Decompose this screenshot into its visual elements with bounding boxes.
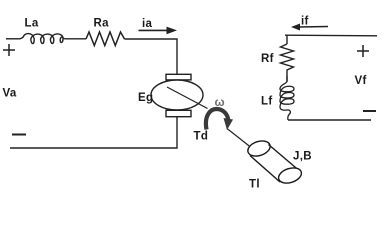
wire: Ra to corner and down to machine: [125, 39, 178, 75]
svg-text:Rf: Rf: [261, 53, 274, 65]
dc machine Eg: bottom brush: [166, 110, 191, 116]
resistor Ra: [86, 32, 125, 46]
current arrow if: [298, 26, 328, 29]
svg-text:Va: Va: [3, 88, 17, 100]
svg-text:Lf: Lf: [261, 96, 272, 108]
minus terminal Vf: [363, 110, 376, 112]
svg-text:Vf: Vf: [355, 75, 367, 87]
wire: between La and Ra: [65, 38, 87, 40]
load cylinder J,B: top end face: [246, 138, 272, 158]
svg-text:Ra: Ra: [94, 18, 110, 30]
svg-text:Eg: Eg: [138, 92, 153, 104]
torque arrow Td (rotation arc): [206, 109, 228, 130]
plus terminal Va: [3, 44, 15, 56]
wire: armature bottom: [10, 117, 177, 149]
svg-text:Tl: Tl: [249, 179, 260, 191]
field circuit bottom wire: [288, 119, 371, 121]
svg-text:ω: ω: [215, 95, 225, 109]
svg-text:Td: Td: [194, 131, 209, 143]
current arrow ia: [139, 29, 170, 31]
inductor Lf: [280, 76, 294, 120]
wire: armature top-left lead: [6, 38, 20, 40]
shaft to load: [227, 129, 251, 148]
plus terminal Vf: [357, 45, 369, 57]
stub between Rf and Lf: [286, 74, 288, 82]
load cylinder J,B: bottom end face: [277, 165, 304, 186]
svg-text:if: if: [301, 16, 309, 28]
resistor Rf: [281, 44, 294, 74]
inductor La: [20, 34, 65, 44]
dc machine Eg: armature circle: [151, 80, 203, 110]
svg-text:ia: ia: [142, 18, 152, 30]
svg-text:La: La: [25, 18, 39, 30]
field circuit top wire: [285, 34, 377, 37]
shaft slash through machine: [167, 87, 208, 109]
field left branch stub: [286, 35, 288, 44]
minus terminal Va: [12, 134, 26, 136]
load cylinder body upper line: [269, 145, 299, 171]
load cylinder body lower line: [250, 156, 280, 183]
svg-text:J,B: J,B: [293, 151, 312, 163]
dc machine Eg: top brush: [166, 74, 191, 80]
